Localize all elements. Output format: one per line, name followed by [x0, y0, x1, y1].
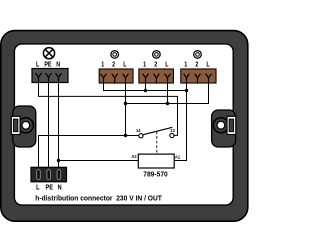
svg-text:L: L: [206, 61, 209, 69]
svg-text:A1: A1: [175, 154, 181, 159]
svg-text:h-distribution connector 230: h-distribution connector 230 V IN / OUT: [35, 195, 162, 202]
svg-text:1: 1: [184, 61, 187, 69]
svg-text:PE: PE: [45, 184, 53, 192]
svg-text:2: 2: [154, 61, 157, 69]
svg-text:789-570: 789-570: [143, 171, 168, 178]
svg-text:2: 2: [112, 61, 115, 69]
svg-text:L: L: [36, 184, 39, 192]
svg-text:1: 1: [101, 61, 104, 69]
svg-text:1: 1: [143, 61, 146, 69]
svg-text:PE: PE: [44, 61, 51, 69]
svg-text:N: N: [56, 61, 60, 69]
svg-text:L: L: [36, 61, 39, 69]
svg-text:N: N: [58, 184, 62, 192]
svg-text:L: L: [123, 61, 126, 69]
svg-text:13: 13: [170, 128, 175, 133]
svg-text:2: 2: [195, 61, 198, 69]
svg-text:L: L: [165, 61, 168, 69]
svg-text:A2: A2: [131, 154, 137, 159]
svg-text:14: 14: [136, 128, 141, 133]
